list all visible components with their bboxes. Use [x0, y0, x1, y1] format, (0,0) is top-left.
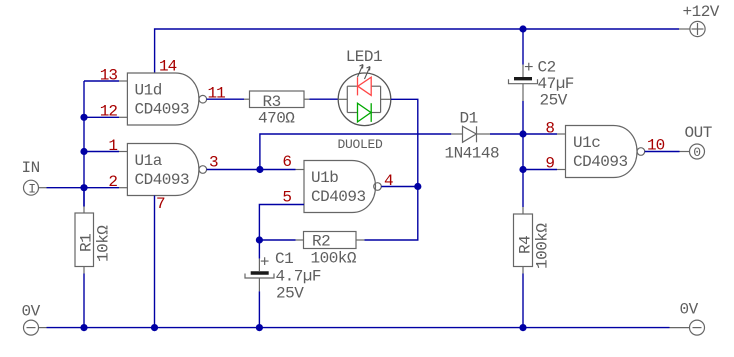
svg-text:47µF: 47µF	[538, 75, 574, 93]
pin stub 6	[296, 169, 305, 171]
wire R4 bottom to ground rail	[522, 274, 524, 328]
wire U1a output to U1b pin6	[207, 169, 296, 171]
svg-text:4.7µF: 4.7µF	[276, 268, 322, 286]
svg-text:U1a: U1a	[135, 152, 163, 170]
wire U1d output to R3	[207, 98, 244, 100]
pin stub 1	[119, 151, 127, 153]
junction pin12	[80, 114, 87, 121]
junction D1 cathode node	[519, 130, 526, 137]
svg-text:4: 4	[384, 172, 393, 190]
terminal OUT	[690, 144, 705, 160]
wire U1b output to feedback node	[381, 186, 418, 188]
pin stub 13	[119, 80, 127, 82]
svg-text:U1b: U1b	[311, 169, 338, 187]
svg-text:D1: D1	[460, 110, 478, 128]
wire U1c output to OUT	[645, 151, 680, 153]
wire C1 top	[258, 240, 260, 259]
wire R3 to LED1	[310, 98, 339, 100]
pin stub R3 right	[304, 98, 310, 100]
pin stub R4 bottom	[522, 267, 524, 274]
svg-text:100kΩ: 100kΩ	[534, 223, 552, 269]
pin stub R1 bottom	[83, 267, 85, 274]
svg-text:R3: R3	[263, 93, 281, 111]
svg-text:LED1: LED1	[346, 48, 382, 66]
svg-text:2: 2	[108, 173, 117, 191]
junction ground R1	[80, 324, 87, 331]
junction pin1	[80, 148, 87, 155]
capacitor C2	[509, 79, 538, 84]
wire pin8	[523, 133, 557, 135]
svg-text:13: 13	[100, 66, 118, 84]
svg-text:U1d: U1d	[135, 81, 162, 99]
pin stub C2 bottom	[522, 84, 524, 101]
svg-text:IN: IN	[22, 159, 40, 177]
svg-text:CD4093: CD4093	[573, 153, 628, 171]
svg-text:I: I	[28, 181, 36, 196]
wire U1a output up to D1 row	[260, 134, 451, 170]
wire pin5 from C1 node	[259, 205, 304, 241]
diode D1	[451, 126, 490, 142]
terminal +12V	[690, 21, 705, 36]
svg-text:1: 1	[108, 137, 117, 155]
wire pin7 to ground rail	[154, 196, 156, 328]
wire top rail VDD with pin14 drop	[155, 29, 679, 73]
wire left rail vertical	[83, 81, 85, 207]
nand gate U1c	[566, 126, 645, 178]
svg-text:6: 6	[282, 153, 291, 171]
svg-text:U1c: U1c	[573, 134, 600, 152]
wire pin2	[84, 187, 119, 189]
svg-text:0V: 0V	[680, 301, 699, 319]
svg-text:25V: 25V	[276, 285, 304, 303]
svg-text:0: 0	[693, 145, 701, 160]
wire ground rail	[47, 327, 670, 329]
svg-text:0V: 0V	[22, 303, 41, 321]
terminal 0V right	[690, 320, 705, 335]
junction top rail / C2	[519, 25, 526, 32]
svg-text:+: +	[524, 59, 533, 77]
resistor R3	[250, 91, 305, 111]
pin stub R2 right	[356, 239, 364, 241]
wire IN to left rail	[47, 187, 85, 189]
wire pin12	[84, 116, 119, 118]
LED1 red diode	[358, 77, 372, 95]
junction U1b output node	[414, 183, 421, 190]
svg-text:C1: C1	[275, 250, 293, 268]
wire D1 cathode to node	[490, 133, 523, 135]
svg-text:1N4148: 1N4148	[445, 145, 500, 163]
pin stub R2 left	[296, 239, 304, 241]
svg-text:10kΩ: 10kΩ	[95, 225, 113, 262]
nand gate U1b	[304, 161, 381, 213]
pin stub OUT	[680, 151, 690, 153]
pin stub IN	[39, 187, 47, 189]
pin stub C2 top	[522, 65, 524, 78]
capacitor C1	[245, 273, 274, 278]
pin stub 0V left	[39, 327, 47, 329]
LED1 duo led	[338, 73, 391, 126]
nand gate U1d	[127, 73, 206, 125]
junction ground R4	[519, 324, 526, 331]
resistor R4	[514, 214, 535, 267]
wire pin9	[523, 169, 557, 171]
svg-text:+: +	[260, 254, 269, 272]
wire C1 node to R2	[259, 239, 295, 241]
resistor R1	[75, 213, 96, 267]
wire C1 bottom to ground rail	[258, 291, 260, 327]
junction ground pin7	[151, 324, 158, 331]
pin stub C1 top	[258, 259, 260, 271]
pin stub R3 left	[244, 98, 250, 100]
svg-text:+12V: +12V	[683, 3, 720, 21]
LED1 green diode	[358, 103, 372, 122]
pin stub 8	[557, 133, 566, 135]
nand gate U1a	[127, 144, 206, 196]
pin stub C1 bottom	[258, 278, 260, 291]
junction pin9 node	[519, 166, 526, 173]
wire R1 bottom to ground rail	[83, 274, 85, 328]
pin stub 12	[119, 116, 127, 118]
svg-text:12: 12	[100, 103, 118, 121]
pin stub 2	[119, 187, 127, 189]
LED1 emission arrows	[358, 65, 371, 80]
svg-text:100kΩ: 100kΩ	[311, 250, 357, 268]
wire C2 bottom to D1/R4 net	[522, 101, 524, 207]
wire R1 top from IN node	[83, 188, 85, 207]
svg-text:R1: R1	[78, 234, 96, 252]
junction IN node	[80, 184, 87, 191]
svg-text:R2: R2	[312, 233, 330, 251]
wire LED1 right / feedback vertical	[364, 99, 417, 240]
junction ground C1	[256, 324, 263, 331]
wire pin13	[84, 80, 119, 82]
svg-text:7: 7	[156, 195, 165, 213]
pin stub 9	[557, 169, 566, 171]
pin stub +12V terminal	[679, 28, 690, 30]
wire C2 top	[522, 29, 524, 65]
terminal IN	[24, 180, 39, 196]
svg-text:25V: 25V	[540, 92, 568, 110]
svg-text:8: 8	[545, 120, 554, 138]
svg-text:470Ω: 470Ω	[258, 110, 295, 128]
junction C1 node	[256, 236, 263, 243]
pin stub R1 top	[83, 207, 85, 214]
svg-text:DUOLED: DUOLED	[338, 137, 384, 152]
wire pin1	[84, 151, 119, 153]
svg-text:CD4093: CD4093	[135, 171, 190, 189]
svg-text:CD4093: CD4093	[135, 101, 190, 119]
svg-text:CD4093: CD4093	[311, 188, 366, 206]
svg-text:C2: C2	[538, 59, 556, 77]
pin stub 0V right	[670, 327, 690, 329]
pin stub R4 top	[522, 207, 524, 214]
svg-text:OUT: OUT	[685, 124, 712, 142]
resistor R2	[304, 232, 357, 251]
junction U1a output node	[256, 166, 263, 173]
terminal 0V left	[24, 320, 39, 335]
svg-text:R4: R4	[517, 236, 535, 254]
